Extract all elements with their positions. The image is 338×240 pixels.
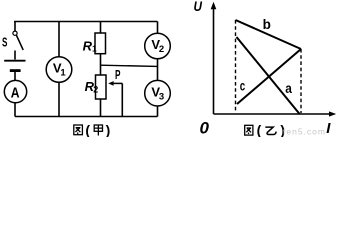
svg-text:(: (: [257, 122, 262, 137]
voltmeter V3: [145, 80, 171, 106]
wire V1 branch lower: [58, 82, 60, 116]
label R1: [83, 38, 97, 53]
svg-text:c: c: [240, 78, 246, 93]
label S: [2, 36, 7, 50]
line c: [237, 49, 301, 104]
label a: [285, 80, 292, 96]
label c: [240, 78, 246, 93]
label b: [263, 17, 271, 32]
wire ammeter to bottom bus: [14, 103, 16, 117]
wire R1 branch upper: [100, 22, 102, 34]
label I: [326, 120, 331, 137]
wire V2 branch upper: [157, 22, 159, 34]
svg-text:0: 0: [200, 118, 210, 137]
U axis: [211, 2, 217, 114]
wiper P arrow: [108, 81, 122, 86]
dashed guide right: [300, 49, 302, 113]
caption 图(甲): [74, 122, 110, 138]
svg-text:): ): [106, 122, 111, 137]
wire wiper to bottom bus: [121, 83, 123, 116]
dashed guide left: [235, 20, 237, 112]
svg-text:S: S: [2, 36, 7, 50]
svg-text:P: P: [115, 68, 121, 82]
I axis: [214, 111, 337, 116]
wire R2 to bottom bus: [100, 99, 102, 117]
wire battery to ammeter: [14, 72, 16, 81]
svg-text:2: 2: [93, 85, 98, 95]
svg-text:b: b: [263, 17, 271, 32]
rheostat R2: [96, 75, 107, 99]
label U: [194, 0, 203, 14]
svg-text:a: a: [285, 80, 292, 96]
svg-text:3: 3: [159, 91, 164, 102]
watermark fen5.com: [283, 127, 326, 137]
svg-text:A: A: [11, 84, 20, 101]
battery: [4, 61, 25, 71]
wire left branch upper (top bus to switch): [14, 22, 16, 32]
svg-text:fen5.com: fen5.com: [283, 127, 326, 137]
wire switch to battery: [14, 51, 16, 60]
label 0: [200, 118, 210, 137]
label R2: [85, 79, 99, 95]
resistor R1: [95, 33, 106, 54]
svg-text:2: 2: [159, 44, 164, 55]
ammeter A: [4, 80, 26, 102]
svg-text:U: U: [194, 0, 203, 14]
wire V3 to bottom bus: [157, 106, 159, 117]
wire mid bus (node between R1,R2 to node between V2,V3): [101, 65, 158, 66]
voltmeter V1: [46, 57, 72, 83]
wire R1 to R2 (through mid node): [100, 54, 102, 75]
svg-text:(: (: [85, 122, 90, 137]
svg-text:1: 1: [92, 44, 97, 54]
line b: [236, 20, 302, 49]
wire top bus: [14, 21, 158, 23]
label P: [115, 68, 121, 82]
wire V1 branch upper: [58, 22, 60, 58]
voltmeter V2: [145, 33, 171, 59]
wire bottom bus: [15, 116, 158, 118]
switch S: [13, 31, 23, 50]
wire V2 to V3: [157, 59, 159, 81]
caption 图(乙): [245, 122, 285, 138]
line a: [237, 37, 300, 114]
svg-text:1: 1: [60, 68, 66, 79]
